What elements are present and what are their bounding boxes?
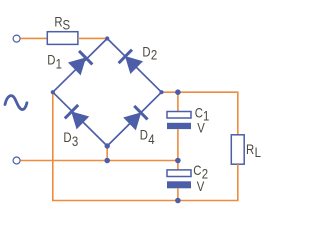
wire: RL bottom to bottom rail xyxy=(237,164,239,200)
diode D4 (on B-R edge, pointing to right node) xyxy=(123,106,148,131)
wire: bottom node to T2 rail xyxy=(106,146,108,161)
wire: C1 bottom to midpoint junction xyxy=(177,129,179,160)
svg-text:D: D xyxy=(47,51,55,68)
node: left vertex xyxy=(51,90,55,94)
capacitor C1 top plate xyxy=(167,112,191,119)
wire: terminal T2 to capacitor midpoint xyxy=(20,160,178,162)
terminal T2 (bottom-left input) xyxy=(13,157,20,164)
svg-text:D: D xyxy=(63,129,71,146)
wire: terminal T1 to resistor RS xyxy=(20,37,47,39)
svg-text:L: L xyxy=(255,145,261,160)
wire: bridge edge top-right (T to R) xyxy=(107,39,161,93)
wire: midpoint junction down to C2 xyxy=(177,161,179,171)
AC source symbol (sine wave) xyxy=(5,96,27,110)
diode D1 (on L-T edge, pointing to top node) xyxy=(68,51,93,76)
wire: C1 tap junction down to C1 xyxy=(177,92,179,112)
resistor RS xyxy=(47,32,78,45)
terminal T1 (top-left input) xyxy=(13,35,20,42)
svg-text:V: V xyxy=(197,178,205,195)
capacitor C1 bottom plate xyxy=(167,123,191,129)
node: C2 bottom rail junction xyxy=(175,198,181,204)
svg-text:3: 3 xyxy=(72,134,78,149)
node: C1 tap on top rail xyxy=(175,89,181,95)
svg-text:1: 1 xyxy=(56,57,62,72)
node: bottom vertex xyxy=(105,143,110,148)
svg-text:V: V xyxy=(197,119,205,136)
wire: bridge edge bottom-left (L to B) xyxy=(53,92,107,146)
wire: bridge edge top-left (L to T) xyxy=(53,39,107,93)
wire: bottom rail with corners xyxy=(53,92,238,200)
node: C1-C2 midpoint junction xyxy=(175,158,181,164)
svg-text:D: D xyxy=(140,126,148,143)
svg-text:D: D xyxy=(142,43,150,60)
node: top vertex xyxy=(105,36,109,40)
wire: right node to top-right corner xyxy=(162,92,238,135)
svg-text:R: R xyxy=(246,141,254,158)
svg-text:C: C xyxy=(193,162,201,179)
capacitor C2 top plate xyxy=(167,170,191,177)
capacitor C2 bottom plate xyxy=(167,181,191,188)
diode D2 (on T-R edge, pointing to top node) xyxy=(118,49,143,74)
wire: C2 bottom to bottom rail xyxy=(177,188,179,200)
node: bottom vertex to T2 rail junction xyxy=(104,158,110,164)
resistor RL xyxy=(231,135,244,164)
svg-text:2: 2 xyxy=(151,48,157,63)
svg-text:R: R xyxy=(54,13,62,30)
node: right vertex xyxy=(159,90,163,94)
svg-text:S: S xyxy=(63,17,71,32)
wire: resistor RS to top node xyxy=(78,37,106,39)
svg-text:C: C xyxy=(195,104,203,121)
wire: bridge edge bottom-right (B to R) xyxy=(107,92,161,146)
diode D3 (on L-B edge, pointing to left node) xyxy=(64,105,89,130)
svg-text:4: 4 xyxy=(148,132,154,147)
